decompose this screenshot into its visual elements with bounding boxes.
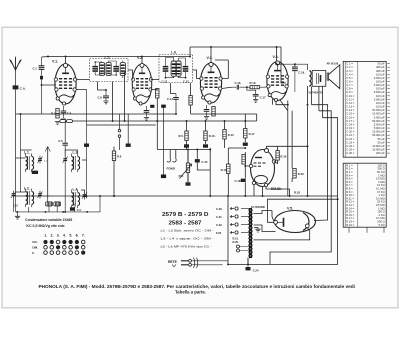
svg-text:C.13.: C.13. [183,80,190,84]
svg-text:C.22.: C.22. [216,223,223,227]
capacitor C18 black [241,179,246,182]
resistor value table [343,163,386,233]
band switch row F. dots [44,251,86,255]
transformer tap 160 [230,207,249,210]
capacitor C19 [292,64,298,92]
svg-text:Condensatore variabile 2X465: Condensatore variabile 2X465 [25,218,72,222]
svg-text:7.: 7. [82,234,85,238]
ground below chassis bus left [15,216,20,219]
svg-text:C.21.: C.21. [216,215,223,219]
svg-text:R.1: R.1 [51,111,56,115]
svg-text:100 pF: 100 pF [376,72,385,76]
ground under C10 [144,118,149,121]
svg-text:L.5.: L.5. [105,55,111,59]
capacitor C17 [247,87,259,99]
capacitor blob near V2 bottom [150,105,154,108]
capacitor blob right of L4 [70,207,75,210]
FONO jack contacts [167,152,176,162]
svg-text:50.000 pF: 50.000 pF [372,108,385,112]
trimmer capacitor left of L2 [11,191,16,199]
svg-text:5.000 pF: 5.000 pF [374,122,385,126]
svg-text:C.24 =: C.24 = [346,144,355,148]
svg-text:OC.: OC. [32,240,38,244]
svg-text:C.12 =: C.12 = [346,101,355,105]
svg-text:V.5.: V.5. [287,206,293,210]
series resistors in bus y121 [60,120,73,123]
capacitor C4 below V1 [61,106,66,118]
capacitor C16 [232,85,245,90]
svg-text:FONO: FONO [167,167,176,171]
L5 junction dots [94,61,117,76]
svg-text:Tabella a parte.: Tabella a parte. [175,289,206,294]
capacitor C1 [39,57,45,76]
svg-text:C.26 =: C.26 = [346,151,355,155]
resistor R10 [204,131,207,141]
svg-text:50.000 pF: 50.000 pF [372,133,385,137]
svg-text:C.22 =: C.22 = [346,137,355,141]
capacitor C14 [173,94,179,104]
resistor R21 [237,245,250,252]
trimmer capacitor of L3 [63,156,68,164]
power transformer winding [249,209,252,258]
svg-text:L.6.: L.6. [171,51,177,55]
svg-text:C.7 =: C.7 = [346,83,353,87]
svg-text:R.20.: R.20. [233,240,239,244]
svg-text:C.10 =: C.10 = [346,94,355,98]
svg-text:R.13.: R.13. [250,81,257,85]
svg-text:C.14: C.14 [167,97,173,101]
svg-text:5 KΩ: 5 KΩ [379,223,385,227]
wire V4 plate to output transformer [277,62,308,70]
band switch row OM. dots [44,245,85,249]
L6 capacitor right [183,66,189,72]
svg-text:C.5 =: C.5 = [346,76,353,80]
RETE arrow [172,264,176,266]
svg-text:F.25.: F.25. [216,231,222,235]
svg-text:C.12.: C.12. [162,80,169,84]
trimmer capacitor of L4 [82,192,87,200]
transformer tap 110 [230,231,249,234]
svg-text:V.3.: V.3. [207,56,213,60]
coil L2 [26,189,34,208]
svg-text:C.19 =: C.19 = [346,126,355,130]
wires coil group [14,90,101,216]
tube V2 [132,63,153,105]
svg-text:5.000 pF: 5.000 pF [374,115,385,119]
svg-text:C.9 =: C.9 = [346,90,353,94]
iron core blob under L1 [32,171,38,174]
svg-text:C.1: C.1 [33,66,38,70]
svg-text:200 pF: 200 pF [376,151,385,155]
svg-text:C.16.: C.16. [235,81,242,85]
svg-text:R.5.: R.5. [179,134,184,138]
L5 primary coil [99,63,104,76]
svg-text:6.: 6. [76,234,79,238]
capacitor ground blob under R10 [203,144,208,147]
tube EM80 [249,149,275,187]
svg-text:50 pF: 50 pF [378,62,385,66]
resistor R2 under C1 [40,76,43,80]
wire junction dots [20,46,339,265]
junction node between C16 R13 [246,86,248,88]
oscillator padder coil right [54,202,61,206]
svg-text:50 µF: 50 µF [378,137,385,141]
antenna [10,57,21,70]
L5 secondary coil [106,63,111,76]
svg-text:C.18: C.18 [235,179,241,183]
svg-text:3.: 3. [57,234,60,238]
svg-text:465 pF: 465 pF [376,65,385,69]
svg-text:R.12: R.12 [228,133,234,137]
IF transformer L5 dashed box [90,59,129,82]
svg-text:C.3: C.3 [77,208,82,212]
resistor R13 (horizontal) [244,86,266,89]
L6 internal wires [166,58,186,78]
svg-text:10.000 pF: 10.000 pF [372,144,385,148]
output transformer coil [309,71,311,86]
svg-text:52.7405/470: 52.7405/470 [309,92,324,95]
capacitor value table [343,61,390,157]
capacitor CA [13,85,19,89]
tube V1 [54,63,77,105]
svg-text:C.6 =: C.6 = [346,80,353,84]
svg-text:465 pF: 465 pF [376,69,385,73]
wire antenna down to band coils [15,90,17,193]
transformer tap 140 [230,215,249,218]
junction dots chassis bus [16,211,88,213]
svg-text:L1 - L2 Bob. aereo OC - OM -: L1 - L2 Bob. aereo OC - OM - [161,229,214,233]
capacitor C15 [195,159,200,162]
resistor R20mid [293,169,296,179]
svg-text:R.6: R.6 [117,154,122,158]
svg-text:3.000 pF: 3.000 pF [374,97,385,101]
L5 capacitor C6 [113,66,119,72]
svg-text:5.: 5. [69,234,72,238]
svg-text:C.17 =: C.17 = [346,119,355,123]
svg-text:C.14 =: C.14 = [346,108,355,112]
coil L1 [26,154,34,173]
ground under C4 [61,119,66,122]
L6 primary coil [171,61,176,76]
svg-text:R.20: R.20 [298,172,304,176]
svg-text:OM.: OM. [32,246,38,250]
svg-text:C.20.: C.20. [216,207,223,211]
capacitor C9 [103,90,109,101]
svg-text:R.19: R.19 [280,154,286,158]
svg-text:C.15.: C.15. [201,160,208,164]
L5 capacitor C5 [92,66,98,72]
capacitor C13b black left [126,144,131,147]
mains plug [181,258,228,269]
svg-text:R.21.: R.21. [233,236,239,240]
svg-text:C.16 =: C.16 = [346,115,355,119]
wire bus network [14,47,338,264]
L6 capacitor left [163,66,169,72]
svg-text:C.17: C.17 [260,96,266,100]
resistor R8 [189,96,192,106]
svg-text:C.1 =: C.1 = [346,62,353,66]
L6 secondary coil [176,61,181,76]
output transformer box [312,71,326,87]
band switch column numbers [44,234,85,238]
svg-text:C.21 =: C.21 = [346,133,355,137]
svg-text:C.9: C.9 [98,96,103,100]
ground under C9 [103,101,108,104]
svg-text:C.5.: C.5. [58,139,63,143]
L6 junction dots [165,77,187,79]
speaker cone [327,65,340,89]
svg-text:F.: F. [32,251,35,255]
svg-text:10.000 pF: 10.000 pF [372,112,385,116]
trimmer capacitor of L2 [37,191,42,199]
svg-text:R.10.: R.10. [209,134,216,138]
svg-text:C.18 =: C.18 = [346,122,355,126]
svg-text:R.18: R.18 [294,190,300,194]
svg-text:100 pF: 100 pF [376,80,385,84]
IF transformer L6 dashed box [159,55,193,83]
svg-text:C.2 =: C.2 = [346,65,353,69]
tube V4 [266,61,289,102]
svg-text:C.24: C.24 [253,268,259,272]
svg-text:C.3 =: C.3 = [346,69,353,73]
svg-text:3.000 pF: 3.000 pF [374,83,385,87]
svg-text:R.17: R.17 [249,132,255,136]
svg-text:KC 0,5 MΩ/Vg vite estr.: KC 0,5 MΩ/Vg vite estr. [26,224,65,228]
svg-text:10.000 pF: 10.000 pF [372,130,385,134]
svg-text:100 pF: 100 pF [376,105,385,109]
capacitor C14b black at top of gang [84,144,89,147]
svg-text:L5 - L6 MF 470 KHz tipo G1 -: L5 - L6 MF 470 KHz tipo G1 - [161,244,212,248]
svg-text:52.7405/380: 52.7405/380 [251,206,266,209]
svg-text:5.000 pF: 5.000 pF [374,90,385,94]
resistor R19 [276,151,279,161]
svg-text:1.: 1. [44,234,47,238]
oscillator padder coil left [46,202,53,206]
svg-text:C.13 =: C.13 = [346,105,355,109]
ground under R1 [55,122,60,125]
band switch row OC. dots [43,240,85,244]
wire C1 down to AVC bus [42,79,57,114]
svg-text:C.2: C.2 [14,204,19,208]
svg-text:L.1.: L.1. [24,151,30,155]
resistor R5 [185,131,188,141]
ground under C17 [253,100,258,103]
L5 internal wires [95,61,123,79]
svg-text:C.15 =: C.15 = [346,112,355,116]
ground blob under P.V. [186,182,191,185]
svg-text:L.4: L.4 [73,187,78,191]
volume potentiometer P.V. [180,150,192,183]
svg-text:AP. W.108: AP. W.108 [327,62,339,65]
svg-text:10.000 pF: 10.000 pF [372,148,385,152]
capacitor C5 on L3 feed line [62,121,68,156]
ground blob under R17 [243,143,248,146]
svg-text:50 µF: 50 µF [378,140,385,144]
svg-text:C.19.: C.19. [298,70,305,74]
svg-text:2.: 2. [50,234,53,238]
resistor R17 [242,155,245,165]
svg-text:L.2.: L.2. [24,186,30,190]
resistor R16 [227,164,230,174]
svg-text:100 pF: 100 pF [376,94,385,98]
resistor R17 [244,129,247,139]
tuning gang shaft wire [44,147,51,199]
transformer center tap ground [254,228,258,230]
svg-text:C.25 =: C.25 = [346,148,355,152]
capacitor C24 [247,258,249,267]
junction C19 [294,63,296,65]
L5 third coil [120,63,125,76]
tube V3 [200,62,223,104]
FONO coupling line and ground [161,105,166,179]
svg-text:C.A.: C.A. [20,86,26,90]
resistor R1 below V1 [56,109,59,119]
svg-text:100 pF: 100 pF [376,101,385,105]
svg-text:2579 B - 2579 D: 2579 B - 2579 D [162,212,209,218]
svg-text:2583 - 2587: 2583 - 2587 [169,220,202,226]
svg-text:PHONOLA (S. A. FIMI) - Modd. 2: PHONOLA (S. A. FIMI) - Modd. 2579B-2579D… [39,284,356,289]
svg-text:L3 - L4 » appar. OC - OM -: L3 - L4 » appar. OC - OM - [161,237,214,241]
svg-text:100 pF: 100 pF [376,87,385,91]
coil L3 [72,154,80,173]
svg-text:C.8 =: C.8 = [346,87,353,91]
svg-text:P.V.: P.V. [179,174,184,178]
wire antenna stem [15,70,17,85]
resistor R12 [223,130,226,140]
svg-text:4.: 4. [63,234,66,238]
resistor R9 below V3 [212,107,215,117]
svg-text:C.23 =: C.23 = [346,140,355,144]
svg-text:C.4 =: C.4 = [346,72,353,76]
svg-text:5.000 pF: 5.000 pF [374,126,385,130]
svg-text:RETE: RETE [168,260,178,264]
capacitor C10 below V2 [144,106,150,117]
svg-text:R.19 =: R.19 = [346,223,354,227]
capacitor ground blob under R5 [184,144,189,147]
svg-text:C.20 =: C.20 = [346,130,355,134]
svg-text:C.11 =: C.11 = [346,97,354,101]
capacitor C11 below V3 [204,105,210,116]
resistor R7 [156,89,159,99]
trimmer capacitor C2 of L1 [37,156,42,164]
svg-text:R.16: R.16 [221,168,227,172]
svg-text:50.000 pF: 50.000 pF [372,119,385,123]
transformer tap 125 [230,223,249,226]
switch contact pair on FONO feed [118,114,121,150]
ground under C11 [204,117,209,120]
resistor R6 [112,151,115,161]
coil L4 [72,190,80,209]
svg-text:3.000 pF: 3.000 pF [374,76,385,80]
svg-text:V.1.: V.1. [52,60,58,64]
tube V5 [274,211,316,233]
svg-text:V.4.: V.4. [273,55,279,59]
